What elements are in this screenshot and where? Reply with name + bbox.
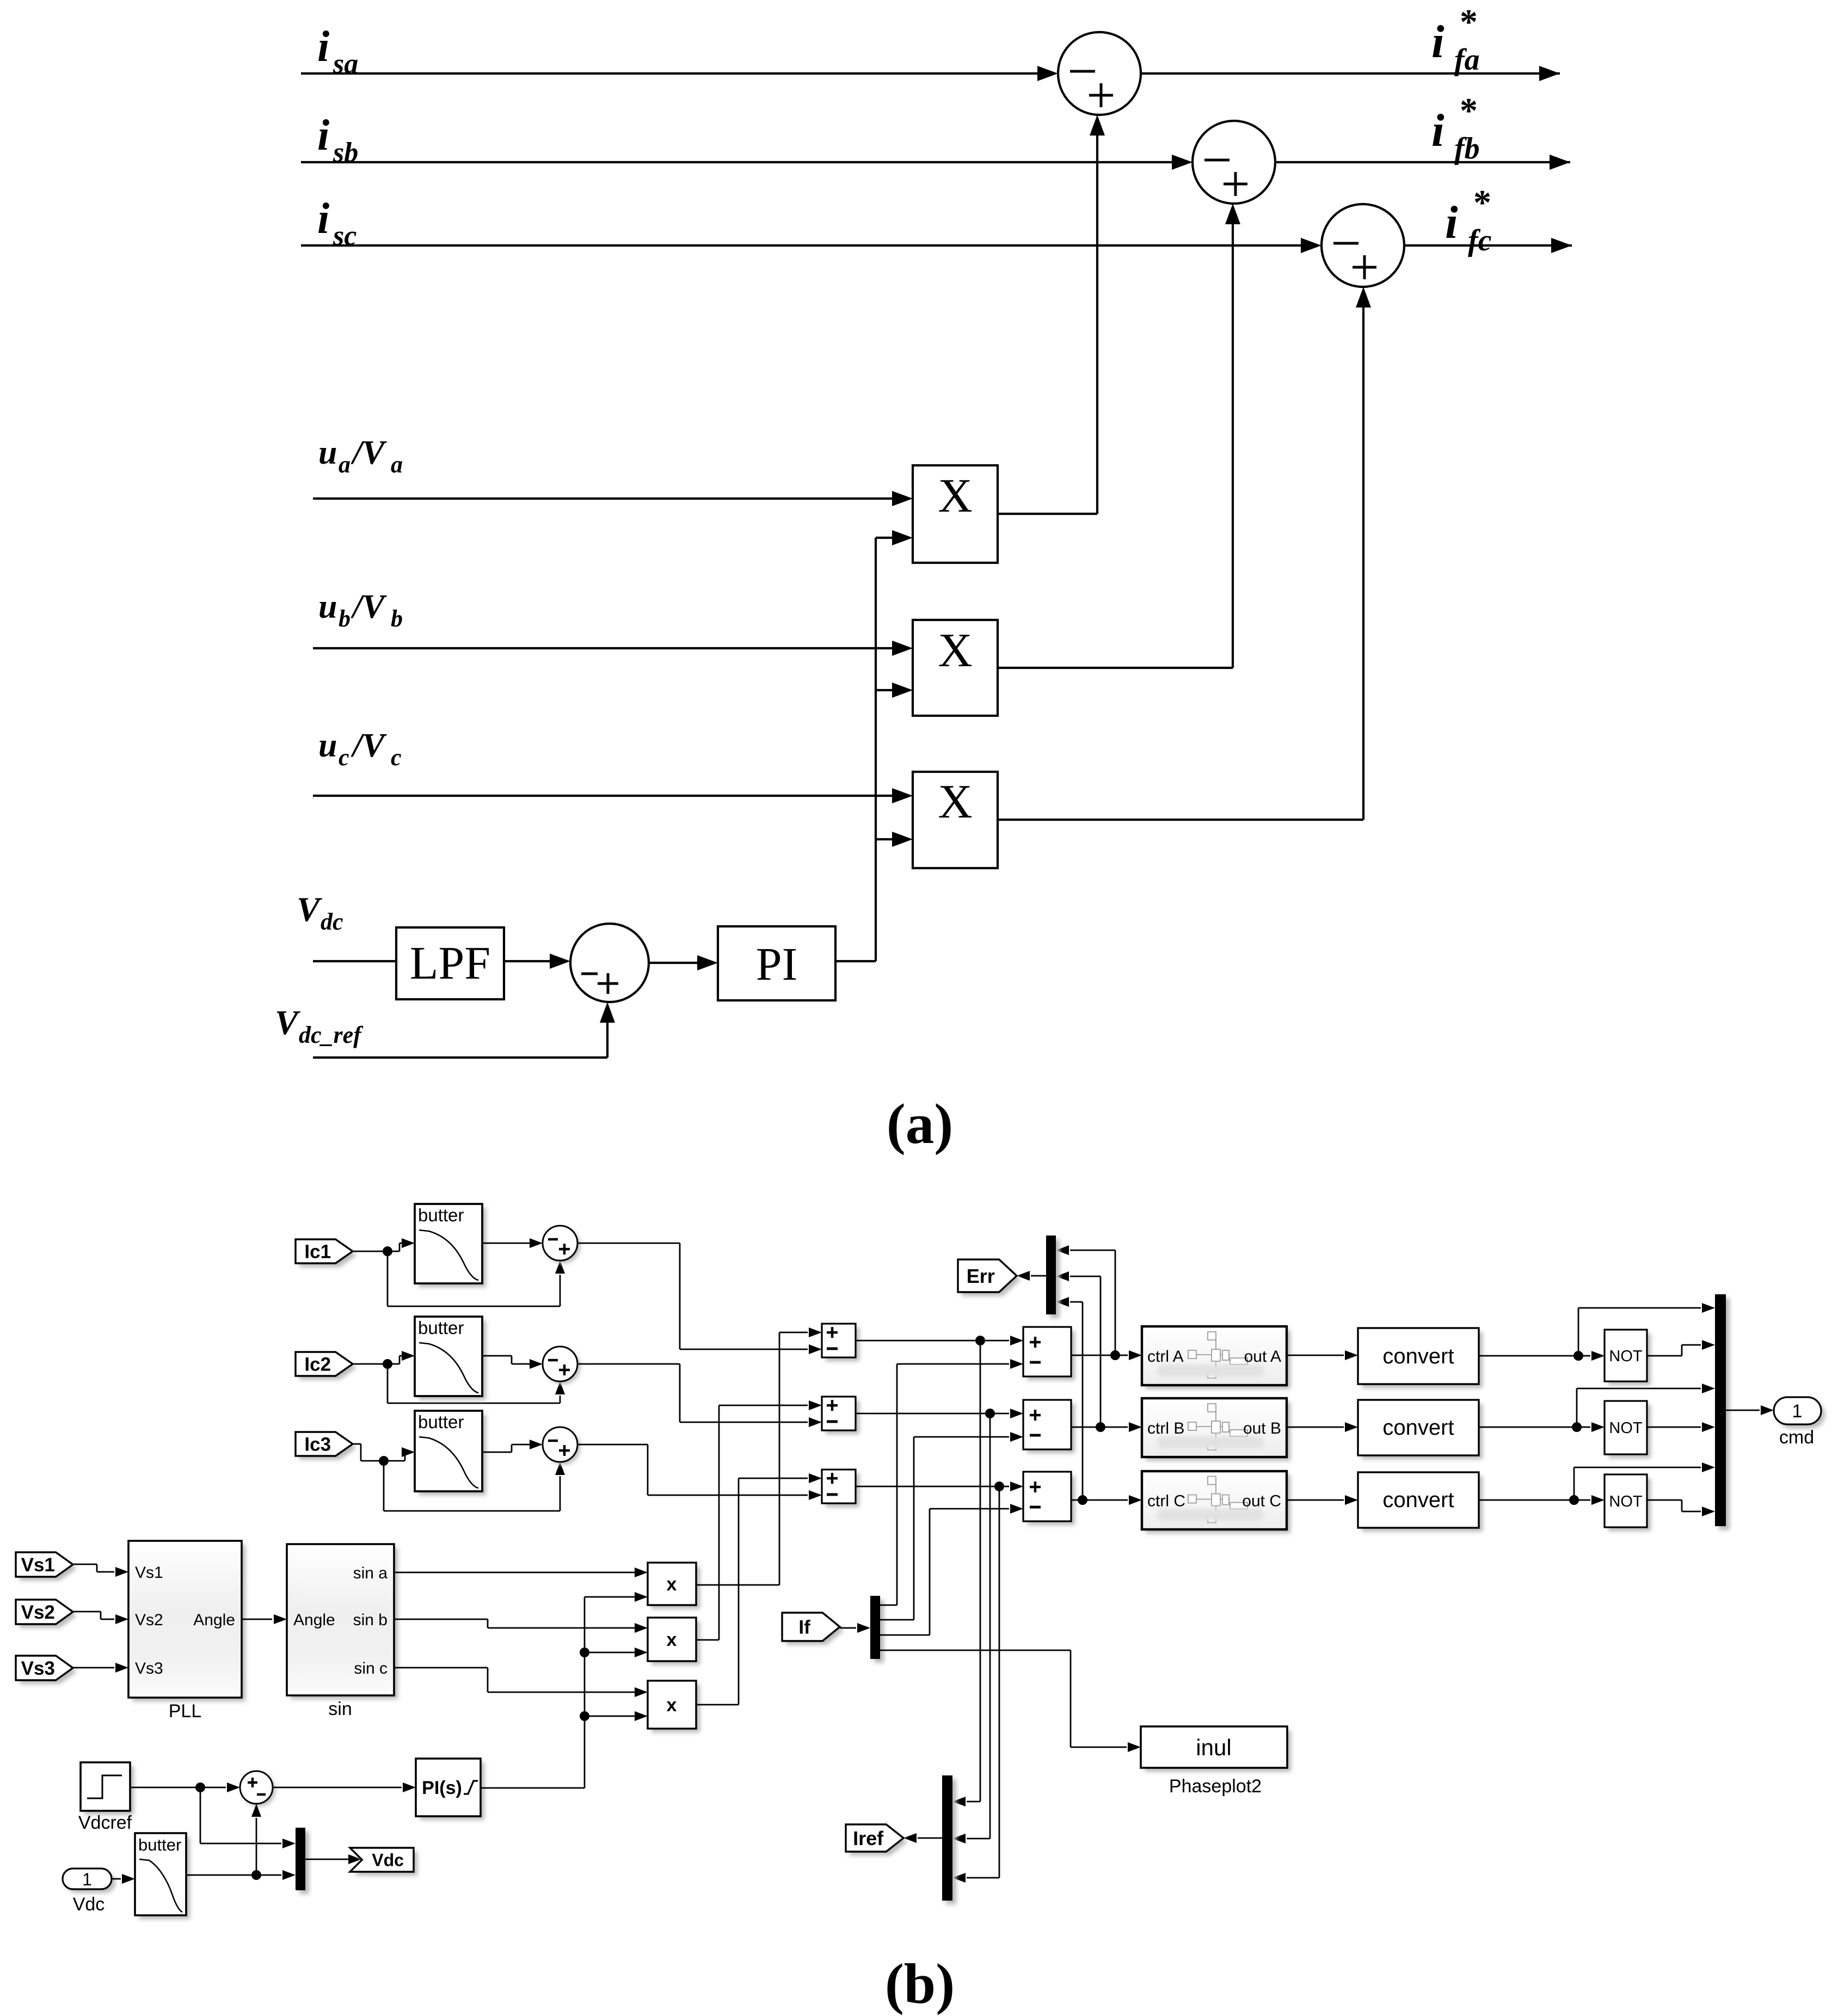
svg-text:X: X xyxy=(938,624,973,677)
svg-text:i: i xyxy=(1431,16,1444,67)
svg-text:c: c xyxy=(339,744,349,771)
wire Ic2 feedback xyxy=(387,1364,389,1403)
svg-text:Vs1: Vs1 xyxy=(21,1554,55,1576)
wire ub xyxy=(313,647,893,649)
product x3 xyxy=(651,1685,700,1732)
wire sum3 out xyxy=(577,1444,648,1446)
wire x2 out xyxy=(696,1639,719,1641)
outport cmd xyxy=(1778,1401,1825,1428)
wire x1 out xyxy=(696,1584,779,1586)
port If xyxy=(786,1617,844,1645)
wire Vdc xyxy=(313,960,396,962)
svg-text:Vs3: Vs3 xyxy=(21,1658,55,1679)
svg-text:sin a: sin a xyxy=(353,1564,388,1582)
svg-text:Vs1: Vs1 xyxy=(135,1564,163,1582)
wire err branch A xyxy=(1115,1250,1116,1355)
wire ifb output xyxy=(1275,161,1570,163)
mux Iref xyxy=(946,1779,956,1904)
svg-text:Vdcref: Vdcref xyxy=(78,1812,132,1833)
port Ic2 xyxy=(299,1356,356,1380)
svg-text:ctrl C: ctrl C xyxy=(1147,1492,1185,1510)
product x2 xyxy=(651,1621,700,1665)
filter butter4 xyxy=(139,1837,190,1919)
svg-text:Vs2: Vs2 xyxy=(135,1611,163,1629)
product x1 xyxy=(651,1566,700,1609)
summer S4 xyxy=(570,924,649,1002)
scope inul (Phaseplot2) xyxy=(1145,1730,1291,1772)
summer sum2 xyxy=(545,1349,580,1384)
wire sum2 out xyxy=(577,1363,680,1365)
svg-text:b: b xyxy=(391,605,403,632)
wire sum1 out xyxy=(577,1243,680,1244)
summer sum4 xyxy=(243,1774,275,1806)
svg-text:PLL: PLL xyxy=(169,1701,202,1722)
svg-text:/V: /V xyxy=(351,727,387,764)
wire If1 xyxy=(880,1605,897,1606)
wire NOTB out xyxy=(1647,1427,1701,1428)
wire X2 to S2 xyxy=(998,667,1233,669)
svg-text:fb: fb xyxy=(1454,132,1480,165)
svg-text:i: i xyxy=(317,23,329,71)
wire err branch B xyxy=(1100,1276,1102,1427)
svg-text:butter: butter xyxy=(418,1412,464,1432)
wire S4 to PI xyxy=(649,962,698,964)
svg-text:Ic3: Ic3 xyxy=(304,1434,331,1455)
port Err xyxy=(962,1263,1021,1296)
svg-text:fa: fa xyxy=(1454,43,1480,77)
subsystem ctrl C xyxy=(1146,1475,1290,1533)
svg-text:V: V xyxy=(275,1003,301,1042)
svg-text:Vs2: Vs2 xyxy=(21,1602,55,1623)
svg-text:sb: sb xyxy=(333,137,358,168)
block NOT A xyxy=(1608,1333,1651,1385)
svg-text:X: X xyxy=(938,776,973,828)
wire If4 to Phaseplot2 xyxy=(880,1650,1071,1651)
wire i_sa xyxy=(301,72,1038,75)
wire colB2 out xyxy=(1071,1427,1128,1428)
svg-text:1: 1 xyxy=(82,1870,92,1889)
wire butter2 to sum2 xyxy=(482,1355,512,1357)
svg-text:LPF: LPF xyxy=(410,937,490,989)
wire mux to Vdc tag xyxy=(305,1859,348,1860)
svg-text:*: * xyxy=(1460,91,1478,131)
summer sum1 xyxy=(545,1228,580,1263)
svg-text:ctrl A: ctrl A xyxy=(1147,1348,1184,1366)
wire sin c xyxy=(394,1667,488,1669)
wire err branch C xyxy=(1082,1302,1084,1500)
svg-text:x: x xyxy=(667,1630,677,1650)
subsystem PLL xyxy=(132,1545,245,1701)
subsystem ctrl B xyxy=(1146,1402,1290,1461)
port Ic1 xyxy=(299,1243,356,1267)
summer sum3 xyxy=(545,1430,580,1465)
filter butter2 xyxy=(419,1320,486,1400)
block NOT C xyxy=(1608,1478,1651,1531)
svg-text:x: x xyxy=(667,1695,677,1716)
summer S1 xyxy=(1058,32,1141,115)
svg-text:butter: butter xyxy=(138,1835,181,1854)
svg-text:convert: convert xyxy=(1382,1488,1454,1512)
block convert C xyxy=(1362,1476,1483,1532)
svg-text:i: i xyxy=(1431,105,1444,156)
wire mux to Err xyxy=(1031,1275,1046,1277)
svg-text:X: X xyxy=(938,470,973,523)
multiplier X3 xyxy=(913,772,998,868)
wire Ic1 feedback xyxy=(387,1251,389,1306)
svg-text:convert: convert xyxy=(1382,1416,1454,1440)
svg-text:If: If xyxy=(798,1617,810,1638)
svg-text:Ic2: Ic2 xyxy=(304,1354,331,1375)
summer S2 xyxy=(1192,121,1275,204)
summer colB2 xyxy=(1027,1404,1075,1453)
wire NOTC out xyxy=(1647,1499,1682,1501)
svg-text:i: i xyxy=(1445,197,1458,248)
wire X1 to S1 xyxy=(998,513,1097,515)
port Vs2 xyxy=(20,1603,77,1628)
wire Vdcref to sum4 xyxy=(130,1787,200,1788)
wire Vdc to butter4 xyxy=(112,1878,121,1880)
svg-text:sc: sc xyxy=(333,220,356,251)
svg-text:Err: Err xyxy=(967,1265,995,1287)
svg-text:PI(s): PI(s) xyxy=(422,1778,462,1798)
wire Vs2 to PLL xyxy=(73,1611,101,1613)
wire Vs1 to PLL xyxy=(73,1564,97,1565)
wire x3 out xyxy=(696,1704,739,1706)
summer S3 xyxy=(1321,204,1404,287)
block NOT B xyxy=(1608,1405,1651,1458)
port Ic3 xyxy=(299,1436,356,1460)
wire Iref branch A xyxy=(980,1341,981,1802)
wire colB1 out xyxy=(856,1413,1009,1415)
wire PI feed vertical xyxy=(875,538,877,961)
constant 1 (Vdc) xyxy=(66,1872,115,1893)
wire butter1 to sum1 xyxy=(482,1243,531,1244)
multiplier X2 xyxy=(913,620,998,716)
svg-text:a: a xyxy=(339,451,351,478)
wire butter3 to sum3 xyxy=(482,1452,512,1453)
svg-text:c: c xyxy=(391,744,402,771)
svg-text:(a): (a) xyxy=(887,1092,953,1155)
wire ua xyxy=(313,497,893,500)
svg-text:fc: fc xyxy=(1468,224,1492,257)
wire convertB out xyxy=(1479,1427,1590,1428)
svg-text:u: u xyxy=(318,434,337,471)
svg-text:*: * xyxy=(1473,183,1491,223)
svg-text:NOT: NOT xyxy=(1609,1493,1643,1510)
wire X3 to S3 xyxy=(998,819,1363,821)
svg-text:1: 1 xyxy=(1792,1401,1803,1422)
wire colA2 out xyxy=(1071,1355,1128,1356)
wire Ic2 to butter2 xyxy=(353,1363,388,1365)
summer colB1 xyxy=(826,1400,859,1434)
svg-text:u: u xyxy=(318,727,337,764)
svg-text:dc_ref: dc_ref xyxy=(299,1022,364,1048)
mux Err xyxy=(1050,1239,1060,1318)
source Vdcref step xyxy=(84,1766,134,1815)
svg-text:ctrl B: ctrl B xyxy=(1147,1419,1184,1437)
wire Ic3 feedback xyxy=(383,1461,385,1511)
svg-text:PI: PI xyxy=(756,938,797,990)
wire uc xyxy=(313,795,893,797)
wire PLL to sin xyxy=(242,1619,272,1620)
block convert A xyxy=(1362,1332,1483,1388)
wire Vs3 to PLL xyxy=(73,1667,114,1669)
port Iref xyxy=(850,1828,907,1855)
wire ctrlB to convertB xyxy=(1287,1427,1344,1428)
svg-text:Vdc: Vdc xyxy=(73,1894,105,1915)
wire Iref branch B xyxy=(989,1413,991,1839)
multiplier X1 xyxy=(913,465,998,563)
svg-text:Vdc: Vdc xyxy=(372,1851,404,1870)
svg-text:out B: out B xyxy=(1243,1419,1281,1437)
wire ctrlA to convertA xyxy=(1287,1355,1344,1356)
mux Vdc xyxy=(299,1831,309,1894)
wire convertA out xyxy=(1479,1355,1590,1357)
svg-text:butter: butter xyxy=(418,1318,464,1338)
wire NOTA out xyxy=(1647,1355,1682,1357)
svg-text:Ic1: Ic1 xyxy=(304,1241,331,1263)
svg-text:V: V xyxy=(297,890,323,929)
port Vs3 xyxy=(20,1659,77,1684)
svg-text:b: b xyxy=(339,605,351,632)
wire colA1 out xyxy=(856,1340,1009,1342)
svg-text:*: * xyxy=(1460,2,1478,42)
wire mux to Iref xyxy=(918,1837,942,1839)
wire Vdcref branch to mux xyxy=(200,1787,201,1843)
filter butter1 xyxy=(419,1208,486,1287)
svg-text:sin b: sin b xyxy=(353,1611,388,1629)
svg-text:out C: out C xyxy=(1242,1492,1281,1510)
wire Vdc_ref xyxy=(313,1056,607,1059)
wire mux to cmd xyxy=(1726,1410,1760,1411)
wire PI out xyxy=(835,960,876,962)
wire butter4 out xyxy=(186,1874,281,1876)
wire If to demux xyxy=(840,1627,856,1629)
wire colC1 out xyxy=(856,1486,1009,1488)
wire LPF to S4 xyxy=(504,960,551,962)
svg-text:/V: /V xyxy=(351,588,387,625)
demux If xyxy=(874,1600,884,1663)
svg-text:(b): (b) xyxy=(885,1952,955,2015)
port Vdc out xyxy=(354,1852,417,1876)
wire Ic1 to butter1 xyxy=(353,1251,388,1252)
svg-text:dc: dc xyxy=(321,908,343,935)
mux cmd xyxy=(1719,1298,1730,1530)
wire colC2 out xyxy=(1071,1499,1128,1501)
wire ifc output xyxy=(1404,244,1572,247)
svg-text:sa: sa xyxy=(333,48,358,79)
svg-text:a: a xyxy=(391,451,403,478)
svg-text:out A: out A xyxy=(1244,1348,1281,1366)
svg-text:Angle: Angle xyxy=(193,1611,235,1629)
summer colA2 xyxy=(1027,1331,1075,1380)
svg-text:Vs3: Vs3 xyxy=(135,1659,163,1677)
summer colC2 xyxy=(1027,1476,1075,1525)
svg-text:Phaseplot2: Phaseplot2 xyxy=(1169,1776,1262,1797)
svg-text:convert: convert xyxy=(1382,1344,1454,1368)
svg-text:i: i xyxy=(317,112,329,159)
svg-text:NOT: NOT xyxy=(1609,1419,1643,1437)
wire i_sc xyxy=(301,244,1302,247)
svg-text:i: i xyxy=(317,195,329,243)
wire PI(s) out xyxy=(481,1787,585,1789)
svg-text:sin c: sin c xyxy=(354,1659,388,1677)
svg-text:u: u xyxy=(318,588,337,625)
svg-text:/V: /V xyxy=(351,434,387,471)
block PI xyxy=(718,926,835,1000)
wire sin a xyxy=(394,1572,636,1574)
summer colA1 xyxy=(826,1327,859,1361)
wire i_sb xyxy=(301,161,1173,163)
svg-text:NOT: NOT xyxy=(1609,1348,1643,1365)
svg-text:x: x xyxy=(667,1574,677,1595)
svg-text:inul: inul xyxy=(1196,1735,1231,1760)
svg-text:sin: sin xyxy=(328,1699,352,1719)
svg-text:cmd: cmd xyxy=(1779,1427,1814,1448)
summer colC1 xyxy=(826,1473,859,1507)
svg-text:butter: butter xyxy=(418,1205,464,1225)
wire sum4 to PI(s) xyxy=(273,1787,402,1788)
svg-text:Angle: Angle xyxy=(293,1611,335,1629)
wire convertC out xyxy=(1479,1499,1590,1501)
block LPF xyxy=(396,927,504,999)
wire ifa output xyxy=(1141,72,1560,75)
wire ctrlC to convertC xyxy=(1287,1499,1344,1501)
subsystem ctrl A xyxy=(1146,1330,1290,1389)
filter butter3 xyxy=(419,1415,486,1495)
wire Iref branch C xyxy=(999,1486,1000,1878)
controller PI(s) xyxy=(420,1762,484,1820)
wire sin b xyxy=(394,1619,488,1620)
block convert B xyxy=(1362,1404,1483,1459)
svg-text:Iref: Iref xyxy=(853,1827,884,1849)
subsystem sin xyxy=(291,1548,398,1699)
port Vs1 xyxy=(20,1556,77,1581)
wire butter4 to sum4 xyxy=(256,1818,257,1875)
wire If3 xyxy=(880,1634,930,1636)
wire If2 xyxy=(880,1619,914,1621)
wire Ic3 to butter3 xyxy=(353,1443,361,1445)
